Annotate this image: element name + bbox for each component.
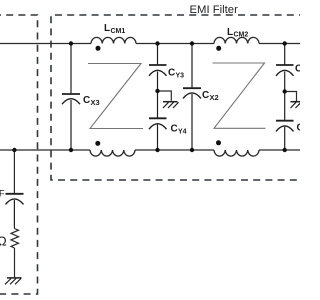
svg-text:EMI Filter: EMI Filter bbox=[190, 4, 239, 16]
label CY2 (cut at edge) bbox=[297, 122, 304, 133]
wire: line L top right segment bbox=[259, 43, 300, 45]
junction node CY1-CY2 bbox=[283, 89, 287, 93]
inductor LCM2 bottom winding bbox=[214, 150, 259, 156]
svg-text:C: C bbox=[295, 64, 300, 75]
capacitor CY2 bbox=[276, 121, 294, 150]
junction node bottom LISN branch bbox=[12, 148, 16, 152]
wire: CY3/CY4 ground tap bbox=[158, 91, 172, 101]
wire: line L top left segment bbox=[0, 43, 91, 45]
svg-text:X3: X3 bbox=[91, 98, 100, 107]
polarity dot LCM1 bottom bbox=[95, 141, 100, 146]
label CY4 bbox=[171, 123, 187, 135]
svg-text:X2: X2 bbox=[210, 93, 219, 102]
svg-text:C: C bbox=[297, 122, 301, 133]
svg-text:L: L bbox=[104, 23, 110, 34]
ground (LISN bottom) bbox=[5, 278, 22, 284]
label LCM1 bbox=[104, 23, 125, 35]
svg-text:Ω: Ω bbox=[0, 234, 7, 249]
wire: CY1/CY2 ground tap bbox=[285, 92, 297, 102]
label F (cut value label) bbox=[0, 189, 5, 199]
wire: line L top middle segment bbox=[136, 43, 214, 45]
junction node bottom CX3 bbox=[69, 148, 73, 152]
svg-text:C: C bbox=[168, 68, 175, 79]
junction node CY3-CY4 bbox=[155, 89, 159, 93]
polarity dot LCM2 top bbox=[216, 46, 221, 51]
label CX2 bbox=[202, 90, 219, 102]
svg-text:CM1: CM1 bbox=[111, 28, 126, 35]
svg-text:CM2: CM2 bbox=[234, 32, 249, 39]
junction node bottom CY4 bbox=[155, 148, 159, 152]
svg-text:C: C bbox=[202, 90, 209, 101]
svg-text:Y4: Y4 bbox=[178, 128, 187, 135]
polarity dot LCM1 top bbox=[96, 46, 101, 51]
label CX3 bbox=[83, 95, 100, 107]
svg-text:C: C bbox=[83, 95, 90, 106]
capacitor C LISN (value cut, F visible) bbox=[6, 194, 24, 229]
ground (between CY3 and CY4) bbox=[163, 102, 179, 108]
junction node top CY1 bbox=[283, 41, 287, 45]
svg-text:F: F bbox=[0, 189, 5, 199]
capacitor CY1 bbox=[276, 44, 294, 121]
label ohm (cut value label) bbox=[0, 234, 7, 249]
junction node top CX3 bbox=[69, 41, 73, 45]
label: EMI Filter bbox=[190, 4, 239, 16]
core symbol Z1 (coupling of LCM1) bbox=[88, 64, 143, 129]
svg-text:Y3: Y3 bbox=[176, 73, 185, 80]
label CY1 (cut at edge) bbox=[295, 64, 302, 75]
svg-text:L: L bbox=[227, 27, 233, 38]
label CY3 bbox=[168, 68, 184, 80]
junction node top CY3 bbox=[155, 41, 159, 45]
inductor LCM2 top winding bbox=[214, 37, 259, 43]
wire: line N bottom middle segment bbox=[135, 149, 214, 151]
capacitor CX2 bbox=[183, 44, 201, 151]
polarity dot LCM2 bottom bbox=[216, 140, 221, 145]
LISN branch wire down bbox=[13, 150, 15, 194]
junction node bottom CY2 bbox=[283, 148, 287, 152]
capacitor CY3 bbox=[149, 44, 167, 119]
inductor LCM1 bottom winding bbox=[90, 150, 135, 156]
EMI Filter box (dashed) bbox=[51, 15, 306, 180]
ground (between CY1 and CY2, cut at edge) bbox=[291, 102, 305, 108]
LISN box (dashed, left) bbox=[0, 15, 38, 294]
wire: line N bottom left segment bbox=[0, 149, 90, 151]
capacitor CX3 bbox=[62, 44, 80, 151]
wire: line N bottom right segment bbox=[259, 149, 300, 151]
junction node top CX2 bbox=[190, 41, 194, 45]
junction node bottom CX2 bbox=[190, 148, 194, 152]
core symbol Z2 (coupling of LCM2) bbox=[213, 63, 266, 128]
svg-text:C: C bbox=[171, 123, 178, 134]
resistor (LISN, value cut, ohm visible) bbox=[11, 229, 19, 278]
inductor LCM1 top winding bbox=[91, 37, 136, 43]
capacitor CY4 bbox=[149, 118, 167, 150]
label LCM2 bbox=[227, 27, 248, 39]
